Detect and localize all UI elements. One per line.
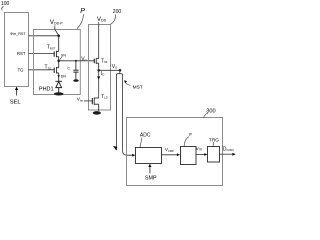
svg-text:VO: VO	[112, 64, 118, 70]
current arrow I_D	[98, 70, 100, 98]
wire VDD	[98, 22, 100, 59]
leader P	[77, 14, 84, 29]
bus MST	[119, 70, 121, 73]
wire V_TR	[196, 154, 205, 156]
leader ADC	[140, 137, 142, 147]
svg-text:300: 300	[206, 108, 215, 114]
wire D_CONV	[220, 153, 233, 155]
leader F	[184, 137, 189, 147]
node V_O	[97, 69, 100, 72]
leader 200	[111, 14, 116, 24]
transistor T_RST	[54, 36, 59, 61]
wire Phi_RST	[29, 35, 59, 37]
wire Vbn	[84, 100, 92, 102]
wire V_CMP	[162, 154, 178, 156]
svg-text:SMP: SMP	[145, 176, 157, 182]
ground (photodiode)	[54, 92, 64, 95]
wire to ADC	[123, 151, 133, 155]
svg-text:TG: TG	[18, 67, 24, 72]
svg-text:MST: MST	[133, 84, 143, 90]
node DN arrow	[57, 75, 60, 77]
transistor T_SF	[94, 58, 98, 70]
svg-text:200: 200	[113, 9, 122, 15]
wire column arrow	[113, 146, 117, 151]
wire RST	[29, 53, 54, 55]
block ADC	[136, 148, 162, 164]
svg-text:P: P	[80, 8, 85, 15]
transistor T_LD	[92, 98, 98, 112]
pixel box P	[34, 30, 81, 95]
svg-text:PHD1: PHD1	[39, 86, 54, 92]
block TRG	[208, 147, 220, 163]
svg-text:SEL: SEL	[10, 99, 22, 105]
leader MST	[125, 81, 131, 85]
node SN	[57, 60, 60, 63]
block F	[181, 147, 197, 165]
input SMP arrow	[149, 166, 151, 174]
wire VDD-P	[55, 26, 59, 36]
input SEL arrow	[16, 89, 18, 96]
leader TRG	[212, 142, 215, 146]
svg-text:VC: VC	[81, 56, 86, 62]
box 100 (control block)	[5, 13, 29, 87]
svg-text:ADC: ADC	[140, 133, 151, 139]
transistor T_TG	[54, 61, 59, 82]
svg-text:Φm_RST: Φm_RST	[10, 32, 26, 36]
svg-text:100: 100	[1, 1, 10, 7]
leader 100	[2, 6, 4, 10]
capacitor C	[73, 61, 78, 80]
svg-text:DN: DN	[61, 75, 67, 79]
node dot VDD-P / Phi_RST	[57, 35, 60, 38]
svg-text:C: C	[67, 66, 70, 70]
box 300	[127, 118, 223, 186]
wire TG	[29, 69, 54, 71]
wire V_O	[99, 69, 120, 71]
svg-text:TRG: TRG	[209, 137, 219, 143]
wire SN to T_SF gate	[59, 60, 94, 62]
svg-text:F: F	[189, 132, 192, 138]
ground (T_LD source)	[93, 111, 101, 115]
box 200	[89, 25, 111, 111]
svg-text:RST: RST	[17, 51, 26, 56]
leader 300	[204, 113, 208, 118]
ground (capacitor)	[73, 79, 78, 82]
photodiode PHD1	[55, 81, 62, 92]
svg-text:ID: ID	[101, 71, 104, 77]
